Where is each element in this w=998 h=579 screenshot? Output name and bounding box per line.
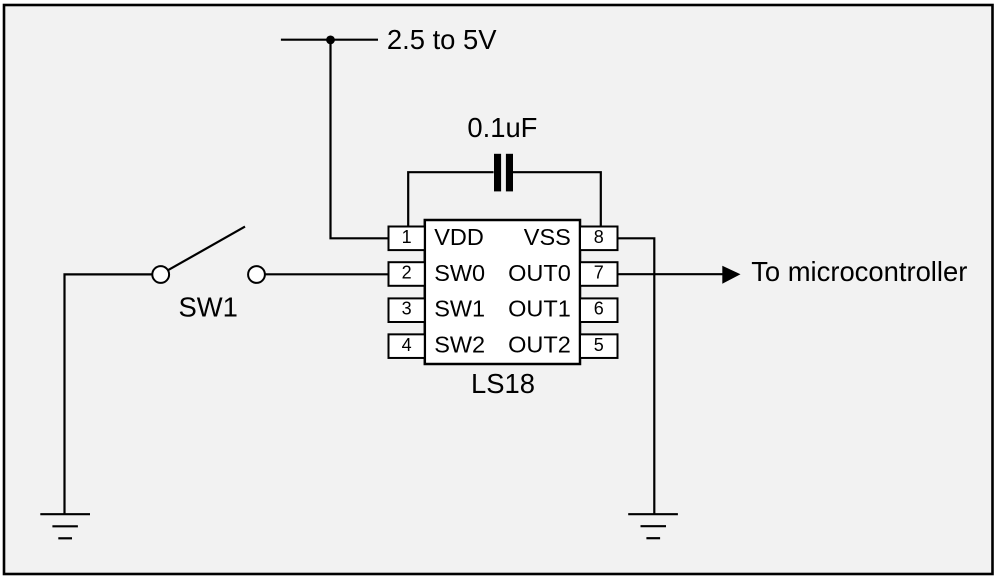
svg-text:OUT0: OUT0 <box>508 260 571 286</box>
wire: pin 7 output to arrow <box>618 273 724 275</box>
pin 3 box <box>389 298 425 322</box>
svg-text:OUT2: OUT2 <box>508 332 571 358</box>
svg-text:To microcontroller: To microcontroller <box>751 256 967 287</box>
pin 4 box <box>389 334 425 358</box>
svg-text:5: 5 <box>594 335 604 355</box>
wire: pin 8 to right ground <box>618 238 655 514</box>
switch SW1 right contact <box>248 266 265 283</box>
svg-text:8: 8 <box>594 227 604 247</box>
capacitor C 0.1uF plates <box>494 154 513 192</box>
svg-text:LS18: LS18 <box>471 368 535 399</box>
switch SW1 blade <box>167 227 245 271</box>
svg-text:3: 3 <box>402 299 412 319</box>
pin 1 box <box>389 227 425 251</box>
svg-text:OUT1: OUT1 <box>508 296 571 322</box>
wire: switch pole to pin 2 <box>265 273 388 275</box>
svg-text:7: 7 <box>594 263 604 283</box>
svg-text:2.5 to 5V: 2.5 to 5V <box>387 24 497 55</box>
svg-text:SW2: SW2 <box>434 332 485 358</box>
svg-text:1: 1 <box>402 227 412 247</box>
svg-text:4: 4 <box>402 335 412 355</box>
svg-text:VSS: VSS <box>524 224 571 250</box>
junction dot on supply rail <box>326 36 335 45</box>
pin 2 box <box>389 262 425 286</box>
svg-text:SW1: SW1 <box>434 296 485 322</box>
IC U1 LS18 body <box>425 220 580 364</box>
ground symbol right <box>628 514 678 538</box>
switch SW1 left contact <box>152 266 169 283</box>
svg-text:2: 2 <box>402 263 412 283</box>
pin 8 box <box>580 227 618 251</box>
wire: capacitor right lead to pin 8 box <box>513 172 601 226</box>
ground symbol left <box>40 514 90 538</box>
pin 6 box <box>580 298 618 322</box>
wire: supply down to pin 1 <box>331 40 389 239</box>
svg-text:0.1uF: 0.1uF <box>467 112 537 143</box>
arrowhead to microcontroller <box>722 266 740 284</box>
svg-text:SW1: SW1 <box>179 292 238 323</box>
wire: 2.5-5V supply rail stub <box>281 39 378 41</box>
svg-text:SW0: SW0 <box>434 260 485 286</box>
svg-text:6: 6 <box>594 299 604 319</box>
pin 7 box <box>580 262 618 286</box>
svg-text:VDD: VDD <box>434 224 484 250</box>
wire: capacitor left lead to pin 1 box <box>408 172 493 226</box>
pin 5 box <box>580 334 618 358</box>
wire: left side down from switch to ground <box>65 274 153 514</box>
